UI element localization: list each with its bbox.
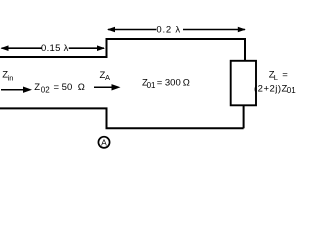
svg-text:A: A — [101, 137, 107, 147]
svg-text:= 50: = 50 — [54, 82, 73, 93]
dimension arrow 0.2 lambda — [107, 24, 246, 35]
wire top: Z02 section top conductor, step up at junction, Z01 section top conductor, drop to load — [0, 39, 245, 61]
svg-text:=: = — [282, 70, 288, 81]
svg-text:02: 02 — [41, 86, 50, 95]
svg-text:Ω: Ω — [183, 77, 190, 88]
svg-text:Ω: Ω — [78, 82, 85, 93]
svg-text:= 300: = 300 — [157, 77, 181, 88]
load ZL box — [231, 61, 256, 106]
svg-text:A: A — [105, 73, 110, 82]
svg-text:0.2 λ: 0.2 λ — [156, 24, 181, 35]
svg-text:0.15 λ: 0.15 λ — [41, 43, 69, 54]
svg-text:in: in — [8, 74, 14, 83]
svg-text:(2+2j)Z: (2+2j)Z — [254, 83, 288, 94]
svg-text:01: 01 — [287, 86, 296, 95]
svg-text:01: 01 — [147, 81, 156, 90]
wire bottom: Z02 section bottom conductor, step down at junction, Z01 section bottom conductor — [0, 108, 244, 128]
svg-text:Z: Z — [34, 82, 40, 93]
dimension arrow 0.15 lambda — [1, 43, 106, 54]
svg-text:L: L — [274, 73, 278, 82]
arrow Zin — [1, 87, 32, 93]
node A circle — [98, 137, 109, 148]
wire: load lower lead — [243, 105, 245, 128]
arrow ZA — [94, 84, 121, 90]
